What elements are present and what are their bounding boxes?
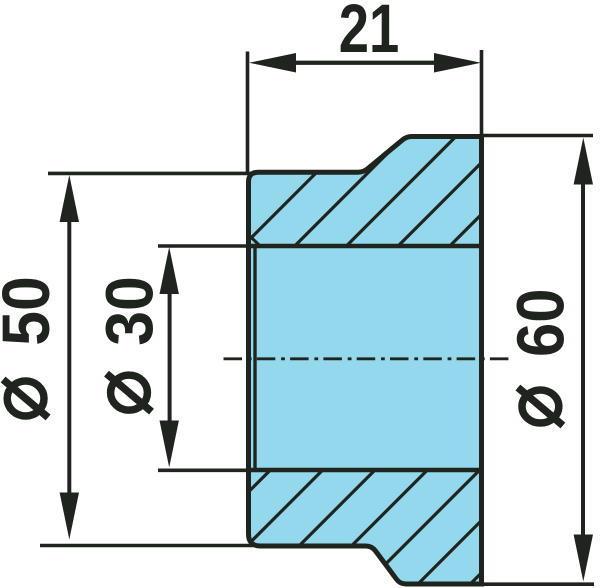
arrow dia30 up — [160, 247, 179, 294]
svg-text:60: 60 — [505, 289, 579, 358]
dimension line dia30 — [168, 292, 172, 423]
arrow 21 left — [249, 53, 296, 72]
bore top line — [249, 244, 482, 249]
dimension line dia60 — [581, 183, 585, 537]
chamfer diagonal top — [250, 236, 259, 245]
diameter symbol for 60 — [518, 388, 563, 426]
arrow dia30 down — [160, 421, 179, 468]
arrow dia50 up — [60, 175, 79, 222]
diameter symbol for 30 — [107, 374, 152, 412]
arrow dia60 up — [574, 138, 593, 185]
extension line 21 right — [480, 50, 484, 140]
svg-text:30: 30 — [94, 276, 168, 346]
arrow dia60 down — [574, 535, 593, 582]
extension line dia60 top — [482, 134, 593, 138]
arrow dia50 down — [60, 493, 79, 540]
extension line dia30 bottom — [158, 468, 250, 472]
bore bottom line — [249, 468, 482, 473]
dimension line dia50 — [67, 220, 71, 495]
bore chamfer edge line — [253, 246, 256, 470]
part outer outline — [249, 137, 482, 585]
extension line dia60 bottom — [482, 582, 594, 586]
hatch lines top wall — [229, 120, 576, 260]
dimension line 21 — [294, 61, 436, 65]
extension line dia50 bottom — [40, 544, 255, 548]
extension line dia50 top — [48, 172, 255, 176]
extension line 21 left — [246, 52, 250, 176]
svg-text:50: 50 — [0, 276, 64, 346]
arrow 21 right — [434, 53, 481, 72]
diameter symbol for 50 — [3, 380, 48, 418]
extension line dia30 top — [158, 244, 250, 248]
part cross-section blue fill — [249, 137, 482, 585]
hatch lines bottom wall — [140, 450, 600, 588]
centerline — [224, 357, 512, 360]
svg-text:21: 21 — [339, 0, 400, 67]
